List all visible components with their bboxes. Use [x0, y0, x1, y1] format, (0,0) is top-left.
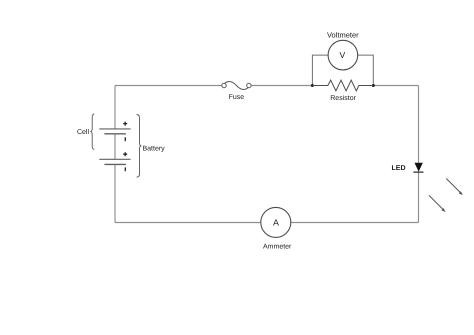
svg-text:LED: LED — [392, 165, 406, 172]
svg-text:Cell: Cell — [77, 128, 90, 136]
svg-text:Resistor: Resistor — [330, 94, 356, 102]
svg-text:Ammeter: Ammeter — [263, 243, 292, 250]
svg-text:Battery: Battery — [143, 145, 166, 152]
svg-text:A: A — [273, 217, 279, 227]
svg-text:V: V — [340, 50, 346, 60]
svg-text:Fuse: Fuse — [229, 94, 245, 101]
svg-text:Voltmeter: Voltmeter — [327, 31, 359, 40]
